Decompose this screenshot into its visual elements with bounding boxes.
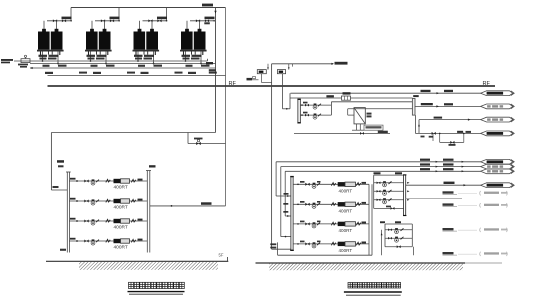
- check row 4 right-diag: [317, 243, 320, 246]
- gray leader y191.3: [458, 193, 477, 195]
- junction b CT-4: [200, 63, 202, 65]
- label branch CT-3: [157, 17, 167, 20]
- wire chiller row 1 right-diag: [293, 183, 369, 185]
- label CT number 4: [188, 72, 196, 74]
- P1 check y191.3: [389, 190, 392, 193]
- cooling tower CT-3 cell 1: [134, 32, 146, 50]
- gray reserved text y203.4: [484, 204, 499, 206]
- nozzle a CT-4: [185, 29, 189, 32]
- manifold M3 top cap: [403, 174, 406, 175]
- junction upper row y105.1: [301, 104, 303, 106]
- check valve row 4: [96, 240, 99, 243]
- tick on make-up line: [292, 64, 294, 67]
- label DN mid 4: [209, 72, 217, 74]
- label make-up water 1: [1, 59, 13, 61]
- P2 check y238.2: [401, 237, 404, 240]
- check valve row 3: [96, 220, 99, 223]
- flex connector row 4 left: [106, 239, 110, 242]
- check upper y115.1: [318, 114, 321, 117]
- ground tick right end: [227, 257, 229, 261]
- wire outlet drop a CT-1: [42, 52, 44, 62]
- chiller 2 shell right-diag: [345, 202, 356, 206]
- gray leader y228: [458, 229, 477, 231]
- leg a CT-1: [40, 52, 42, 56]
- HX bottom horiz: [352, 129, 364, 131]
- wire tower branch CT-4: [190, 20, 215, 22]
- wire tower branch CT-1: [47, 20, 72, 22]
- wire branch drop CT-3: [166, 8, 168, 21]
- arrow line y171.3: [436, 170, 438, 172]
- label a line y161.8: [420, 159, 430, 161]
- tower basin flange CT-1: [37, 50, 64, 52]
- arrow into tank2: [288, 67, 290, 69]
- wire HX left drop: [347, 109, 349, 115]
- flex row 3 left right-diag: [331, 222, 335, 225]
- label DN under tower 3 l: [138, 65, 145, 67]
- label under tower 2 a: [87, 55, 96, 57]
- rule under DN label y191.3: [443, 193, 458, 195]
- label above bypass box: [343, 92, 351, 94]
- flag F4: [481, 131, 515, 136]
- gray bracket right y191.3: [506, 191, 509, 195]
- flag F3: [481, 117, 515, 122]
- label bottom drop b: [270, 247, 276, 249]
- label left riser DN: [57, 160, 64, 163]
- P1 bypass line: [374, 207, 404, 209]
- label bottom drop a: [270, 243, 276, 245]
- flex row 3 right right-diag: [356, 222, 360, 225]
- flag F8: [481, 183, 515, 188]
- wire chiller row 3 left-diag: [69, 220, 147, 222]
- label under tower 3 d: [135, 58, 142, 60]
- cooling tower CT-1 cell 1: [38, 32, 50, 50]
- arrow make-up line: [331, 63, 334, 65]
- flex row 1 left right-diag: [331, 183, 335, 186]
- flag F5: [481, 159, 515, 164]
- label DN mid 2: [127, 72, 135, 74]
- ground hatch right: [269, 264, 463, 271]
- cooling tower CT-1 cell 2: [51, 32, 63, 50]
- arrow bracket3: [287, 215, 289, 217]
- arrow line y161.8: [436, 161, 438, 163]
- flex connector row 1 right: [131, 179, 135, 182]
- P1 pump y182.8: [383, 181, 387, 187]
- wire line 8 to flag: [406, 184, 481, 186]
- label DN right row 2: [138, 199, 143, 201]
- leg d CT-3: [154, 52, 156, 56]
- tower basin flange CT-3: [133, 50, 160, 52]
- P1 top line: [374, 174, 404, 176]
- junction b CT-2: [105, 63, 107, 65]
- bypass left drop: [439, 133, 441, 142]
- junction row 3: [76, 220, 78, 222]
- label step valve: [194, 138, 203, 140]
- chiller 2 condenser section: [114, 199, 121, 203]
- arrow on branch CT-1: [70, 20, 72, 22]
- title right diagram: [348, 283, 401, 289]
- check valve row 1: [96, 180, 99, 183]
- label row 1a right-diag: [300, 181, 305, 183]
- title left diagram: [129, 282, 185, 288]
- leg d CT-4: [202, 52, 204, 56]
- label b line y161.8: [443, 159, 454, 161]
- gray bracket right y252: [506, 252, 509, 256]
- pump CWP-2: [91, 199, 95, 205]
- ground line right thin part: [465, 262, 502, 264]
- pump CWP-1: [91, 179, 95, 185]
- gray reserved text b y203.4: [501, 204, 507, 206]
- label header C right: [209, 69, 216, 71]
- wire right riser 1: [368, 184, 370, 255]
- valve on step: [196, 142, 201, 145]
- P2 left vertical: [384, 224, 386, 247]
- label DN row 3 right-diag: [362, 222, 367, 224]
- wire nozzle drop a CT-1: [43, 21, 45, 29]
- wire header B y63.5: [30, 63, 216, 65]
- label CT number 1: [45, 72, 53, 74]
- wire nozzle drop b CT-4: [199, 21, 201, 29]
- P2 arrow up: [381, 233, 383, 235]
- heat exchanger HX: [354, 108, 365, 124]
- chiller 4 shell right-diag: [345, 242, 356, 246]
- arrow line2: [436, 105, 439, 107]
- label b line y166.6: [443, 163, 454, 165]
- arrow b line y166.6: [462, 166, 464, 168]
- pump CWP-4: [91, 239, 95, 245]
- wire line3 drop: [418, 120, 420, 134]
- wire stub left of tank1: [252, 79, 259, 81]
- roof line RF: [48, 85, 496, 87]
- valve on line4: [432, 132, 436, 135]
- nozzle b CT-2: [103, 29, 107, 32]
- wire nozzle drop a CT-3: [139, 21, 141, 29]
- P1 valve y199.8: [377, 198, 381, 201]
- gray bracket left y252: [479, 252, 482, 256]
- bypass valve box on top line: [342, 96, 351, 100]
- label on lower line: [378, 131, 388, 133]
- title underline 1 left: [128, 291, 185, 293]
- gray bracket right y228: [506, 228, 509, 232]
- junction row 3 right-diag: [297, 223, 299, 225]
- chiller 1 shell: [121, 179, 130, 183]
- gray leader y252: [458, 253, 477, 255]
- wire bottom left drop: [277, 242, 279, 255]
- flow arrow down on v1: [214, 11, 216, 14]
- label bypass: [449, 144, 456, 146]
- flex row 2 right right-diag: [356, 203, 360, 206]
- nozzle b CT-3: [150, 29, 154, 32]
- label DN under tower 4: [201, 65, 210, 67]
- valve row 3: [84, 219, 88, 222]
- wire right riser 2: [371, 184, 373, 255]
- title underline 2 left: [129, 293, 183, 295]
- junction bypass left: [439, 133, 441, 135]
- label near v1: [204, 22, 210, 24]
- pump CHWP-2: [312, 203, 316, 209]
- tank unit 1: [257, 70, 266, 74]
- valve row 2 right-diag: [305, 203, 309, 206]
- wire step horizontal: [188, 143, 226, 145]
- junction b CT-1: [57, 63, 59, 65]
- gray bracket left y228: [479, 228, 482, 232]
- label CT number 3: [141, 72, 149, 74]
- label DN row 1: [70, 178, 76, 180]
- flex connector row 4 right: [131, 239, 135, 242]
- label left riser bottom: [60, 249, 66, 251]
- wire return line y206: [150, 205, 226, 207]
- P1 pump y199.8: [383, 198, 387, 204]
- junction row 1 right-diag: [297, 184, 299, 186]
- leg d CT-1: [59, 52, 61, 56]
- wire pump row 1 upper: [300, 104, 331, 106]
- label a line y171.3: [420, 168, 430, 170]
- wire outlet drop b CT-1: [57, 52, 59, 64]
- leg a CT-4: [183, 52, 185, 56]
- arrow line y166.6: [436, 166, 438, 168]
- P1 check y199.8: [389, 198, 392, 201]
- wire header D y75.5: [48, 75, 226, 77]
- leg d CT-2: [107, 52, 109, 56]
- wire outlet drop a CT-4: [185, 52, 187, 62]
- rule under DN label y252: [443, 254, 458, 256]
- label DN reserved y191.3: [443, 191, 454, 193]
- P1 arrow out y191.3: [407, 190, 409, 192]
- label b line1: [444, 90, 453, 92]
- valve on branch CT-3: [148, 19, 152, 22]
- P1 pump row y191.3: [374, 190, 404, 192]
- bypass right drop: [463, 133, 465, 142]
- label DN right row 1: [138, 179, 143, 181]
- label bracket b: [283, 203, 288, 205]
- rule under DN label y203.4: [443, 206, 458, 208]
- flex row 1 right right-diag: [356, 183, 360, 186]
- arrow b line y171.3: [462, 170, 464, 172]
- leg b CT-1: [48, 52, 50, 55]
- bypass bottom: [440, 141, 464, 143]
- wire header C y68: [30, 67, 216, 69]
- tower basin flange CT-2: [85, 50, 112, 52]
- label branch CT-4: [205, 17, 215, 20]
- valve 2 on branch CT-3: [157, 19, 161, 22]
- label DN under tower 1: [58, 65, 67, 67]
- wire into HX: [348, 114, 354, 116]
- junction row 1: [76, 180, 78, 182]
- gray reserved text y228: [484, 228, 499, 230]
- wire outlet drop b CT-4: [200, 52, 202, 64]
- wire chiller row 2 left-diag: [69, 200, 147, 202]
- gray reserved text y252: [484, 252, 499, 254]
- junction a CT-1: [42, 60, 44, 62]
- wire loop left edge: [50, 133, 52, 191]
- drop to tank2: [288, 64, 290, 70]
- label DN300: [326, 95, 334, 97]
- P2 check y229.7: [401, 228, 404, 231]
- gray bracket right y203.4: [506, 203, 509, 207]
- wire left riser x69.4: [68, 172, 70, 253]
- junction bracket2: [285, 236, 287, 238]
- air separator capsule: [412, 99, 415, 116]
- label DN right row 4: [138, 239, 143, 241]
- svg-text:400RT: 400RT: [114, 245, 128, 251]
- label under tower 4 a: [182, 55, 191, 57]
- label PRV 2: [20, 66, 27, 68]
- wire long drop v272: [271, 64, 273, 249]
- manifold M3 bottom cap: [403, 215, 406, 216]
- pump CWP-3: [91, 219, 95, 225]
- valve 2 on branch CT-4: [205, 19, 209, 22]
- P1 arrow out y199.8: [407, 199, 409, 201]
- box inner tick 2: [347, 96, 349, 100]
- label DN under tower 3: [154, 65, 163, 67]
- label DN reserved y228: [443, 228, 454, 230]
- tank unit 2: [277, 70, 285, 74]
- arrow on branch CT-2: [118, 20, 120, 22]
- arrow b line y161.8: [462, 161, 464, 163]
- arrow on branch CT-3: [165, 20, 167, 22]
- wire outlet drop a CT-3: [137, 52, 139, 62]
- junction a CT-2: [90, 60, 92, 62]
- label DN reserved y252: [443, 252, 454, 254]
- wire line 3 to flag: [419, 119, 481, 121]
- P1 arrow out y182.8: [407, 182, 409, 184]
- rule under DN label y228: [443, 230, 458, 232]
- leg c CT-2: [99, 52, 101, 55]
- tank unit 1 inner: [259, 71, 264, 73]
- label DN mid 3: [175, 72, 183, 74]
- manifold M3 P1: [404, 175, 406, 215]
- flag F2: [481, 104, 515, 109]
- label branch CT-1: [62, 17, 72, 20]
- cooling tower CT-3 cell 2: [146, 32, 158, 50]
- arrow into upper manifold: [286, 108, 288, 110]
- P2 valve y229.7: [388, 228, 392, 231]
- gray reserved text b y252: [501, 253, 507, 255]
- label a line1: [421, 90, 431, 92]
- valve row 1: [84, 179, 88, 182]
- wire tower branch CT-2: [95, 20, 120, 22]
- chiller 4 condenser section: [114, 239, 121, 243]
- label under tower 1 d: [40, 58, 47, 60]
- label DN row 2 right-diag: [362, 202, 367, 204]
- gray bracket left y203.4: [479, 203, 482, 207]
- label DN right row 3: [138, 219, 143, 221]
- label CT pipe on supply main: [202, 4, 213, 7]
- wire right riser x149.8: [149, 171, 151, 253]
- check valve row 2: [96, 200, 99, 203]
- svg-text:400RT: 400RT: [339, 248, 353, 253]
- chiller 3 evaporator dark: [338, 222, 345, 226]
- wire make-up top line: [272, 63, 333, 65]
- label P2 b: [395, 221, 401, 223]
- P2 pump y229.7: [395, 228, 399, 234]
- tank1 bottom drop: [261, 74, 263, 83]
- junction row 4: [76, 240, 78, 242]
- wire chiller row 1 left-diag: [69, 180, 147, 182]
- wire bottom edge lower loop: [278, 254, 372, 256]
- svg-text:400RT: 400RT: [114, 185, 128, 191]
- P1 pump row y182.8: [374, 182, 404, 184]
- cooling tower CT-4 cell 2: [194, 32, 206, 50]
- pump upper y115.1: [313, 114, 317, 120]
- check row 1 right-diag: [317, 183, 320, 186]
- wire nozzle drop a CT-4: [186, 21, 188, 29]
- label DN under tower 1 l: [43, 65, 50, 67]
- title underline 2 right: [346, 294, 401, 296]
- flex connector row 1 left: [106, 179, 110, 182]
- flex row 4 right right-diag: [356, 242, 360, 245]
- wire HX top line: [348, 108, 413, 110]
- label under tower 2 b: [97, 55, 107, 57]
- title underline 1 right: [344, 291, 402, 293]
- P2 left riser down: [381, 230, 383, 256]
- label DN row 3: [70, 218, 76, 220]
- valve row 2: [84, 199, 88, 202]
- cooling tower CT-4 cell 1: [181, 32, 193, 50]
- label under tower 3 a: [134, 55, 143, 57]
- wire upper loop top left: [290, 97, 342, 99]
- softener dashed box: [364, 125, 383, 130]
- manifold M2 bottom cap: [290, 250, 294, 251]
- label b line y171.3: [443, 168, 454, 170]
- bracket h4 from v272: [272, 248, 291, 250]
- ground line right: [256, 262, 466, 264]
- wire tower supply main: [71, 7, 226, 9]
- gray reserved text b y228: [501, 229, 507, 231]
- gray bracket left y191.3: [479, 191, 482, 195]
- valve on branch CT-1: [53, 19, 57, 22]
- bracket v1 lower loop: [275, 162, 277, 196]
- junction bypass right: [463, 133, 465, 135]
- bracket h1 lower loop: [276, 195, 291, 197]
- header A end tick: [207, 59, 209, 61]
- nozzle a CT-3: [138, 29, 142, 32]
- label make-up water 2: [1, 62, 10, 64]
- chiller 4 shell: [121, 239, 130, 243]
- valve row 4 right-diag: [305, 242, 309, 245]
- P2 valve y238.2: [388, 237, 392, 240]
- label DN reserved y203.4: [443, 203, 454, 205]
- label line4: [457, 131, 463, 133]
- valve 2 on branch CT-1: [62, 19, 66, 22]
- P2 right vertical: [411, 224, 413, 247]
- leg c CT-4: [194, 52, 196, 55]
- label row 1b right-diag: [317, 181, 321, 183]
- wire left riser x67.3: [66, 172, 68, 253]
- label left riser DN row2: [58, 165, 64, 167]
- arrow line8: [464, 184, 467, 186]
- wire lower line left segment: [294, 132, 390, 134]
- valve on bypass: [450, 141, 454, 144]
- wire pump rows right vertical: [330, 102, 332, 115]
- label under tower 4 b: [192, 55, 202, 57]
- wire chiller row 2 right-diag: [293, 203, 369, 205]
- P2 right drop: [413, 247, 415, 256]
- label row 4b right-diag: [317, 241, 321, 243]
- ground line left: [46, 260, 228, 262]
- valve row 1 right-diag: [305, 183, 309, 186]
- wire reserved line gray: [406, 198, 462, 200]
- wire chiller row 3 right-diag: [293, 223, 369, 225]
- P2 pump row y238.2: [385, 237, 412, 239]
- pump CHWP-1: [312, 183, 316, 189]
- junction row 2 right-diag: [297, 204, 299, 206]
- label row 3a right-diag: [300, 221, 305, 223]
- chiller 2 shell: [121, 199, 130, 203]
- label under tower 1 e: [48, 58, 57, 60]
- wire nozzle drop b CT-2: [104, 21, 106, 29]
- label right riser DN: [149, 165, 156, 167]
- flag F1 supply: [481, 91, 515, 96]
